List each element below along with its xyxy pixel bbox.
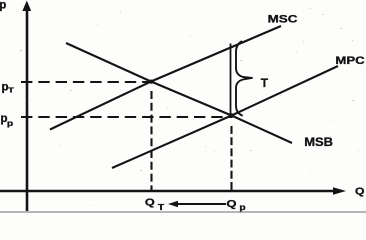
svg-text:MSC: MSC	[268, 13, 298, 26]
dashed line pp	[21, 116, 231, 118]
horizontal axis Q	[0, 187, 346, 195]
svg-text:p: p	[0, 0, 6, 11]
svg-text:Q: Q	[145, 197, 155, 209]
vertical axis p	[22, 1, 31, 212]
svg-text:p: p	[239, 203, 246, 212]
MPC curve	[112, 66, 338, 168]
MSC curve	[50, 26, 281, 130]
label pp	[1, 113, 14, 128]
dashed line Qp	[230, 126, 232, 190]
svg-text:T: T	[8, 86, 14, 94]
label QT	[145, 197, 165, 212]
tax vertical segment	[230, 44, 232, 116]
arrow Qp to QT	[168, 201, 226, 207]
svg-text:Q: Q	[226, 197, 236, 209]
MSB curve	[66, 43, 292, 143]
svg-text:T: T	[261, 76, 269, 90]
node intersection MPC x MSB (Qp,pp)	[229, 113, 234, 118]
brace T	[236, 42, 252, 116]
label pT	[2, 82, 14, 95]
svg-text:Q: Q	[355, 186, 365, 197]
dashed line QT	[150, 91, 152, 190]
svg-text:MSB: MSB	[304, 136, 333, 149]
bottom scan edge line	[0, 211, 366, 213]
svg-text:T: T	[158, 203, 165, 212]
node intersection MSC x MSB (QT,pT)	[149, 80, 153, 84]
dashed line pT	[21, 81, 151, 83]
label Qp	[226, 197, 246, 212]
scan speckles	[20, 8, 359, 206]
svg-text:MPC: MPC	[335, 54, 365, 67]
svg-text:p: p	[7, 119, 14, 128]
